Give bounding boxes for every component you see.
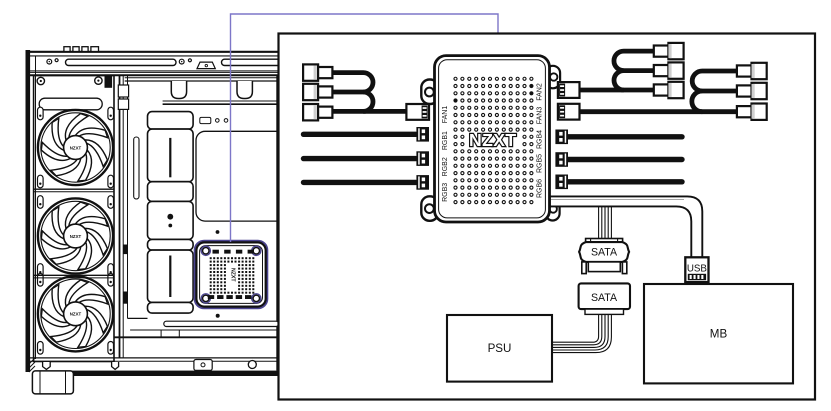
RGB1 connector [416,127,429,142]
FAN3 fan plug 1 [737,63,767,79]
USB cable shading [551,199,684,201]
svg-text:RGB5: RGB5 [537,154,544,173]
cable grommet top [118,85,128,109]
FAN2 fan plug 3 [654,82,684,98]
controller perforation grid [453,77,533,203]
svg-text:FAN2: FAN2 [537,83,544,101]
RGB6 cable [568,179,682,184]
RGB3 cable [304,180,417,185]
left corner hatching [29,358,35,372]
cable channel bar [148,112,194,314]
psu shroud lip [164,321,279,326]
FAN1 fan plug 2 [303,84,332,100]
shroud dot [216,314,220,318]
svg-text:RGB4: RGB4 [537,130,544,149]
svg-text:SATA: SATA [591,247,618,259]
fan clip blocks [123,245,127,304]
case top panel slot right [222,59,284,65]
fan bracket crossbar 1 [34,189,114,192]
USB cable band [550,196,702,257]
FAN1 port [406,104,429,120]
FAN2 fan plug 1 [654,43,684,59]
case controller blue outline [195,241,268,309]
PSU box [447,315,552,382]
fan 3 mounting slots [38,274,114,355]
controller mounting ear bottom-right [546,198,560,221]
case front foot [32,371,73,394]
fan 2 mounting slots [38,196,114,277]
svg-text:PSU: PSU [488,342,512,355]
USB connector [685,257,708,282]
FAN3 port [558,104,580,120]
RGB3 connector [416,175,429,190]
controller mounting ear top-left [421,80,438,105]
svg-text:MB: MB [710,327,728,340]
fan bracket frame [34,76,124,362]
svg-text:NZXT: NZXT [469,130,517,150]
svg-text:RGB6: RGB6 [537,179,544,198]
case controller perforation [210,257,255,294]
svg-text:RGB1: RGB1 [442,131,449,150]
case top latch bracket [197,62,215,69]
FAN3 fan plug 2 [737,83,767,99]
case right edge [276,76,278,371]
controller mounting ear top-right [546,66,561,89]
link wire from case controller to panel [231,14,499,242]
panel frame [279,34,816,400]
case left side panel edge [26,50,36,372]
case top edge [26,52,279,56]
svg-text:RGB3: RGB3 [442,183,449,202]
RGB6 connector [555,175,568,190]
fan 3 [38,276,113,351]
fan 2 [38,198,113,273]
motherboard tray recess [196,131,295,221]
controller U1 body [435,56,550,222]
FAN1 splitter cable [333,73,407,112]
FAN2 splitter cable [578,51,654,90]
RGB4 cable [568,134,682,139]
case bottom bar [71,371,279,376]
controller mounting ear bottom-left [421,196,438,221]
wiring diagram [303,43,793,384]
rail hook 2 [237,81,252,99]
fan 1 [38,110,113,185]
svg-text:NZXT: NZXT [70,145,82,150]
RGB5 cable [568,157,682,162]
FAN1 fan plug 3 [303,104,332,120]
top rails [125,78,279,105]
svg-text:NZXT: NZXT [229,268,235,282]
PC case drawing [26,47,295,394]
fan bracket bottom hooks [43,362,119,369]
case controller body [196,242,265,306]
RGB5 connector [555,152,568,167]
tray screw holes [200,117,228,123]
svg-text:USB: USB [687,264,708,275]
SATA connector (controller side) [579,239,629,274]
case top panel slot left [66,59,177,65]
radiator mount screws [37,77,102,85]
RGB2 cable [304,156,417,161]
fan bracket crossbar 2 [34,275,114,278]
FAN2 fan plug 2 [654,62,684,78]
case top I/O bumps [64,47,99,52]
caster wheel [248,361,256,369]
FAN2 port [558,82,580,98]
psu shroud lines [114,330,279,337]
cable strip panel [128,76,148,319]
svg-text:FAN3: FAN3 [537,107,544,125]
controller port labels [442,83,544,202]
SATA wires from controller [599,207,612,239]
MB box [644,284,793,383]
standoff screw above controller [216,230,220,234]
vent slot [134,137,139,199]
case top panel screws [47,59,192,64]
bottom bracket tab [194,360,212,371]
SATA connector (PSU side) [579,283,630,314]
radiator mount slot [39,98,102,110]
RGB4 connector [555,130,568,145]
case top panel lower lines [28,71,279,75]
svg-text:NZXT: NZXT [70,234,82,239]
fan cable clip block [105,75,113,88]
svg-text:SATA: SATA [591,292,618,304]
svg-text:FAN1: FAN1 [442,106,449,124]
PSU wires [552,314,611,352]
FAN3 fan plug 3 [737,104,767,120]
case bottom frame lines [30,358,279,361]
rail hook 1 [171,81,186,99]
svg-text:NZXT: NZXT [70,312,82,317]
FAN3 splitter cable [578,71,737,112]
FAN1 fan plug 1 [303,64,332,80]
RGB1 cable [304,132,417,137]
fan 1 mounting slots [38,107,114,188]
svg-text:RGB2: RGB2 [442,157,449,176]
RGB2 connector [416,151,429,166]
